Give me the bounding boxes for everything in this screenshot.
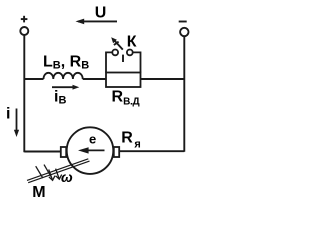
shaft hatch tick 1 [36, 166, 43, 178]
wire inductor to resistor [83, 78, 106, 80]
svg-text:RВ.Д: RВ.Д [112, 88, 140, 107]
current i arrow [14, 109, 19, 138]
rotation arrow 2 [56, 169, 62, 180]
resistor RVD [106, 73, 141, 88]
svg-text:Rя: Rя [121, 129, 140, 150]
motor armature circle [67, 127, 114, 174]
svg-text:U: U [95, 5, 107, 22]
wire left vertical [23, 35, 25, 152]
plus polarity mark [21, 16, 28, 23]
switch branch right riser [133, 52, 141, 72]
minus polarity mark [179, 21, 187, 23]
svg-text:К: К [127, 33, 137, 50]
wire right vertical [183, 36, 185, 152]
svg-text:iВ: iВ [54, 89, 66, 107]
svg-text:LВ, RВ: LВ, RВ [43, 54, 89, 72]
wire bottom right [119, 150, 184, 152]
switch K contact right [127, 50, 133, 56]
switch K blade and actuation arrow [113, 39, 123, 62]
brush left [61, 147, 66, 157]
shaft hatch tick 2 [44, 165, 51, 177]
current iB arrow [52, 85, 79, 90]
shaft double line [27, 159, 90, 183]
switch branch left riser [106, 52, 112, 72]
emf e arrow [78, 147, 105, 153]
wire resistor to right vertical [141, 78, 185, 80]
rotation arrow 1 [49, 170, 55, 181]
switch K contact left [112, 50, 118, 56]
svg-text:ω: ω [61, 169, 73, 185]
wire to inductor [24, 78, 43, 80]
brush right [114, 147, 119, 157]
svg-text:i: i [6, 106, 10, 123]
voltage U arrow [76, 19, 118, 25]
inductor LB winding [44, 73, 83, 79]
wire bottom left [24, 151, 61, 153]
svg-text:e: e [89, 132, 96, 147]
terminal right [180, 28, 188, 36]
svg-text:М: М [32, 184, 45, 201]
terminal left [20, 27, 28, 35]
